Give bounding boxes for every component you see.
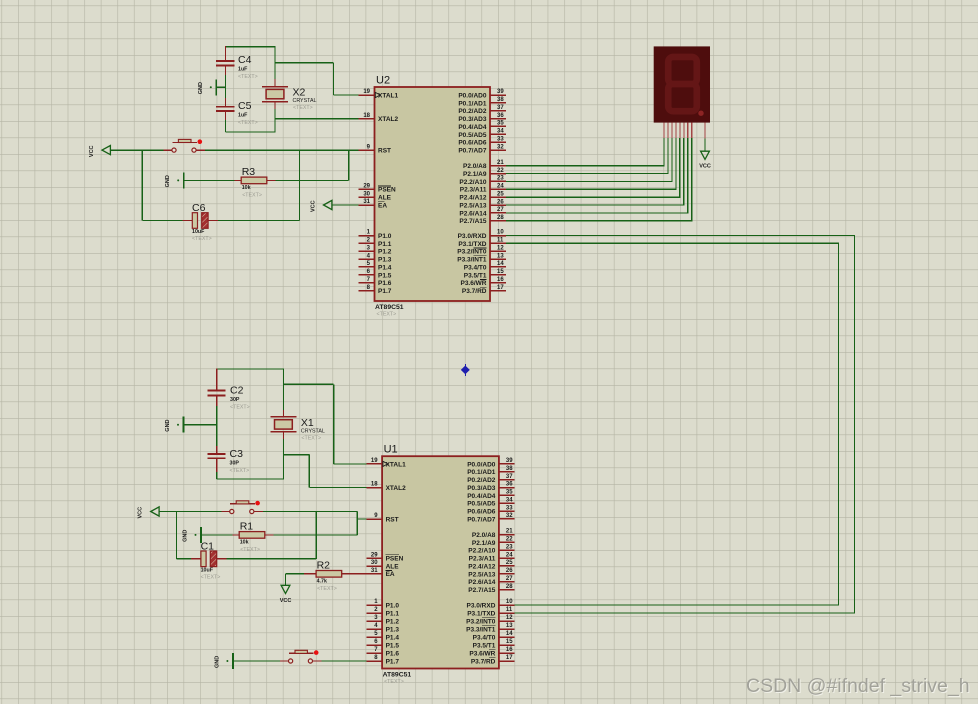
svg-text:GND: GND	[165, 175, 171, 187]
svg-text:P0.1/AD1: P0.1/AD1	[458, 100, 487, 107]
wire P2.1 to display segment b	[506, 138, 668, 173]
wire P2.4 to display segment e	[506, 138, 680, 197]
red state dot (P1.7 button)	[314, 650, 319, 655]
svg-text:PSEN: PSEN	[378, 187, 396, 194]
svg-text:19: 19	[371, 458, 378, 464]
capacitor C1 right lead	[217, 558, 227, 560]
svg-text:P1.7: P1.7	[378, 288, 392, 295]
ground (R1)	[183, 527, 202, 543]
button S1 left lead	[221, 511, 229, 513]
wire C4 top link	[226, 46, 276, 48]
U2 pin 11 (P3.1/TXD)	[458, 238, 505, 248]
U2 pin 34 (P0.5/AD5)	[458, 129, 505, 139]
svg-text:C3: C3	[230, 448, 244, 460]
svg-text:38: 38	[506, 466, 513, 472]
U1 pin 34 (P0.5/AD5)	[467, 497, 514, 507]
wire branch R3 vert	[348, 150, 350, 180]
svg-text:P3.1/TXD: P3.1/TXD	[467, 610, 495, 617]
svg-text:25: 25	[497, 191, 504, 197]
svg-text:4.7k: 4.7k	[317, 579, 327, 585]
wire R3 to RST net	[276, 179, 349, 181]
wire C2 to gnd node	[216, 406, 218, 425]
capacitor C4	[216, 54, 258, 80]
svg-text:<TEXT>: <TEXT>	[240, 547, 260, 553]
display pin e	[679, 123, 681, 139]
svg-text:PSEN: PSEN	[386, 556, 404, 563]
svg-text:VCC: VCC	[699, 164, 711, 170]
svg-text:P0.3/AD3: P0.3/AD3	[458, 116, 487, 123]
U1 pin 36 (P0.3/AD3)	[467, 482, 514, 492]
svg-text:P0.0/AD0: P0.0/AD0	[467, 461, 496, 468]
U2 pin 4 (P1.3)	[359, 253, 392, 263]
svg-text:P2.6/A14: P2.6/A14	[459, 210, 486, 217]
svg-text:1uF: 1uF	[238, 67, 248, 73]
U2 pin 35 (P0.4/AD4)	[458, 121, 505, 131]
svg-text:P2.1/A9: P2.1/A9	[463, 171, 487, 178]
U1 pin 33 (P0.6/AD6)	[467, 505, 514, 515]
svg-text:31: 31	[363, 199, 370, 205]
svg-text:10: 10	[506, 599, 513, 605]
svg-text:P2.2/A10: P2.2/A10	[468, 548, 495, 555]
U1 pin 19 (XTAL1)	[366, 458, 406, 468]
push button (U2 reset)	[172, 139, 197, 152]
svg-text:P2.0/A8: P2.0/A8	[472, 532, 496, 539]
svg-text:P0.5/AD5: P0.5/AD5	[467, 501, 496, 508]
button S2 right lead	[196, 149, 205, 151]
power VCC (U1 EA)	[280, 585, 292, 604]
svg-text:30P: 30P	[230, 460, 240, 466]
svg-text:P3.0/RXD: P3.0/RXD	[466, 602, 495, 609]
U1 pin 39 (P0.0/AD0)	[467, 458, 514, 468]
wire U1 XTAL1 link vert	[333, 384, 335, 464]
svg-text:37: 37	[506, 474, 513, 480]
capacitor C2 top lead	[216, 368, 218, 390]
svg-text:<TEXT>: <TEXT>	[238, 120, 258, 126]
crystal X2 top lead	[274, 79, 276, 87]
crystal X1	[270, 417, 324, 442]
wire U1 XTAL2 link vert	[308, 455, 310, 488]
resistor R2	[316, 560, 342, 592]
U2 pin 1 (P1.0)	[359, 230, 392, 240]
wire U1 XTAL1 link horiz	[283, 383, 333, 385]
svg-text:P0.4/AD4: P0.4/AD4	[458, 124, 487, 131]
wire R1 to jog	[274, 534, 358, 536]
svg-text:<TEXT>: <TEXT>	[317, 586, 337, 592]
wire jog to U1 RST	[357, 518, 366, 520]
wire button2 to jog	[263, 511, 357, 513]
power VCC (U1 reset)	[138, 507, 159, 519]
capacitor C5	[216, 100, 258, 126]
svg-text:P3.2/INT0: P3.2/INT0	[466, 618, 496, 625]
svg-text:12: 12	[497, 245, 504, 251]
svg-text:X1: X1	[301, 417, 314, 429]
capacitor C6	[192, 202, 212, 242]
capacitor C3 top lead	[216, 446, 218, 454]
svg-text:AT89C51: AT89C51	[383, 671, 412, 678]
svg-text:13: 13	[506, 623, 513, 629]
resistor R2 right lead	[342, 573, 367, 575]
wire gnd tee 2	[184, 424, 217, 426]
svg-text:P2.5/A13: P2.5/A13	[459, 202, 486, 209]
svg-text:P1.6: P1.6	[378, 280, 392, 287]
svg-text:36: 36	[506, 482, 513, 488]
svg-text:18: 18	[363, 113, 370, 119]
U1 pin 38 (P0.1/AD1)	[467, 466, 514, 476]
svg-text:P2.5/A13: P2.5/A13	[468, 571, 495, 578]
svg-text:P1.2: P1.2	[378, 249, 392, 256]
resistor R1 left lead	[232, 534, 239, 536]
svg-text:34: 34	[497, 129, 504, 135]
svg-text:RST: RST	[378, 148, 391, 155]
wire common anode to VCC	[704, 139, 706, 151]
wire gnd node to C3	[216, 425, 218, 446]
wire branch mid vert 2	[315, 512, 317, 559]
capacitor C4 bottom lead	[225, 65, 227, 75]
wire C5 bottom link	[226, 131, 276, 133]
svg-text:26: 26	[497, 199, 504, 205]
wire to U2 XTAL1	[334, 94, 360, 96]
svg-text:R3: R3	[242, 166, 256, 178]
resistor R2 left lead	[304, 573, 316, 575]
svg-text:P2.2/A10: P2.2/A10	[459, 179, 486, 186]
U2 pin 36 (P0.3/AD3)	[458, 113, 505, 123]
wire gnd tee	[216, 86, 225, 88]
wire C2 top link	[217, 368, 284, 370]
display pin c	[671, 123, 673, 139]
display pin b	[667, 123, 669, 139]
svg-text:P1.2: P1.2	[386, 618, 400, 625]
ground (top osc)	[198, 79, 217, 95]
U1 pin 7 (P1.6)	[366, 647, 399, 657]
svg-text:P0.2/AD2: P0.2/AD2	[458, 108, 487, 115]
capacitor C1	[201, 540, 221, 580]
svg-text:XTAL2: XTAL2	[378, 116, 398, 123]
svg-text:P0.7/AD7: P0.7/AD7	[458, 147, 487, 154]
wire P2.2 to display segment c	[506, 138, 672, 181]
U1 pin 9 (RST)	[366, 513, 398, 523]
svg-text:<TEXT>: <TEXT>	[242, 192, 262, 198]
svg-text:XTAL1: XTAL1	[386, 461, 406, 468]
U1 pin 32 (P0.7/AD7)	[467, 513, 514, 523]
svg-text:21: 21	[506, 529, 513, 535]
U2 pin 28 (P2.7/A15)	[459, 215, 505, 225]
svg-text:12: 12	[506, 615, 513, 621]
svg-text:33: 33	[506, 505, 513, 511]
svg-text:10k: 10k	[242, 185, 251, 191]
svg-text:27: 27	[506, 576, 513, 582]
wire VCC col vert	[285, 574, 287, 585]
crystal X2 bottom lead	[274, 102, 276, 109]
U1 pin 27 (P2.6/A14)	[468, 576, 514, 586]
svg-text:24: 24	[497, 184, 504, 190]
svg-text:P1.5: P1.5	[378, 272, 392, 279]
mcu U1 body	[382, 444, 499, 669]
U2 pin 38 (P0.1/AD1)	[458, 97, 505, 107]
svg-text:EA: EA	[378, 202, 387, 209]
svg-text:35: 35	[497, 121, 504, 127]
wire P2.7 to display segment h	[506, 138, 692, 221]
svg-text:26: 26	[506, 568, 513, 574]
U1 part type label	[383, 671, 412, 685]
svg-text:32: 32	[506, 513, 513, 519]
U2 pin 7 (P1.6)	[359, 277, 392, 287]
wire XTAL1 link horiz	[275, 62, 334, 64]
wire to U1 XTAL2	[309, 487, 366, 489]
svg-text:VCC: VCC	[280, 598, 292, 604]
svg-text:P2.1/A9: P2.1/A9	[472, 540, 496, 547]
svg-text:C6: C6	[192, 202, 206, 214]
svg-text:GND: GND	[183, 530, 189, 542]
U1 pin 8 (P1.7)	[366, 655, 399, 665]
svg-text:P3.5/T1: P3.5/T1	[464, 272, 487, 279]
U2 pin 25 (P2.4/A12)	[459, 191, 505, 201]
svg-text:<TEXT>: <TEXT>	[230, 405, 250, 411]
wire C3 to bottom link	[216, 472, 218, 479]
resistor R3 left lead	[234, 179, 241, 181]
wire P2.5 to display segment f	[506, 138, 684, 205]
svg-text:XTAL1: XTAL1	[378, 92, 398, 99]
svg-text:30P: 30P	[230, 397, 240, 403]
wire gnd to R3	[184, 179, 235, 181]
U1 pin 15 (P3.5/T1)	[473, 639, 515, 649]
svg-text:23: 23	[506, 544, 513, 550]
U2 pin 33 (P0.6/AD6)	[458, 136, 505, 146]
svg-text:15: 15	[497, 269, 504, 275]
U1 pin 14 (P3.4/T0)	[473, 631, 515, 641]
svg-text:ALE: ALE	[378, 195, 392, 202]
U2 part type label	[375, 304, 404, 318]
svg-text:17: 17	[506, 655, 513, 661]
svg-text:22: 22	[497, 168, 504, 174]
power VCC (U2 EA)	[311, 200, 332, 212]
capacitor C3 bottom lead	[216, 458, 218, 472]
wire xtal1 col upper	[282, 368, 284, 410]
svg-text:P0.1/AD1: P0.1/AD1	[467, 469, 496, 476]
svg-text:17: 17	[497, 285, 504, 291]
U2 pin 30 (ALE)	[359, 191, 392, 201]
wire VCC to button	[110, 149, 163, 151]
wire branch left vert	[141, 150, 143, 220]
wire XTAL1 link vert	[333, 63, 335, 95]
svg-text:27: 27	[497, 207, 504, 213]
U2 pin 22 (P2.1/A9)	[463, 168, 506, 178]
svg-text:GND: GND	[214, 656, 220, 668]
svg-text:10uF: 10uF	[192, 229, 205, 235]
svg-text:11: 11	[497, 238, 504, 244]
svg-text:18: 18	[371, 482, 378, 488]
button S1 right lead	[254, 511, 263, 513]
svg-text:<TEXT>: <TEXT>	[230, 468, 250, 474]
svg-text:P0.6/AD6: P0.6/AD6	[458, 140, 487, 147]
U1 pin 24 (P2.3/A11)	[469, 552, 515, 562]
svg-text:16: 16	[506, 647, 513, 653]
svg-text:CSDN @#ifndef _strive_h: CSDN @#ifndef _strive_h	[746, 675, 970, 697]
svg-text:21: 21	[497, 160, 504, 166]
U1 pin 28 (P2.7/A15)	[468, 584, 514, 594]
svg-text:P2.0/A8: P2.0/A8	[463, 163, 487, 170]
U2 pin 31 (EA)	[359, 199, 388, 209]
U2 pin 8 (P1.7)	[359, 285, 392, 295]
wire C4 to gnd node	[225, 75, 227, 87]
wire gnd to button3	[233, 660, 280, 662]
svg-text:P1.0: P1.0	[378, 233, 392, 240]
svg-text:37: 37	[497, 105, 504, 111]
svg-text:25: 25	[506, 560, 513, 566]
power VCC (display)	[699, 151, 711, 170]
wire C3 bottom link	[217, 478, 284, 480]
U2 pin 13 (P3.3/INT1)	[457, 253, 506, 263]
U1 pin 16 (P3.6/WR)	[469, 647, 514, 657]
wire to U1 XTAL1	[334, 463, 367, 465]
svg-text:P0.6/AD6: P0.6/AD6	[467, 509, 496, 516]
wire C5 to bottom link	[225, 120, 227, 132]
U1 pin 13 (P3.3/INT1)	[466, 623, 515, 633]
wire xtal col upper	[274, 46, 276, 79]
svg-text:P0.5/AD5: P0.5/AD5	[458, 132, 487, 139]
svg-text:P3.5/T1: P3.5/T1	[473, 642, 496, 649]
svg-text:EA: EA	[386, 571, 395, 578]
svg-text:C1: C1	[201, 540, 215, 552]
svg-text:14: 14	[497, 261, 504, 267]
U2 pin 19 (XTAL1)	[359, 89, 399, 99]
svg-text:29: 29	[363, 184, 370, 190]
svg-text:P3.1/TXD: P3.1/TXD	[458, 241, 486, 248]
capacitor C5 top lead	[225, 98, 227, 107]
power VCC (U2 reset)	[89, 145, 110, 157]
svg-text:P1.5: P1.5	[386, 642, 400, 649]
wire branch left vert 2	[176, 512, 178, 559]
svg-text:P2.3/A11: P2.3/A11	[469, 556, 496, 563]
svg-text:<TEXT>: <TEXT>	[301, 435, 321, 441]
svg-text:<TEXT>: <TEXT>	[377, 312, 397, 318]
U2 pin 37 (P0.2/AD2)	[458, 105, 505, 115]
wire gnd node to C5	[225, 87, 227, 98]
svg-text:X2: X2	[293, 87, 306, 99]
svg-text:14: 14	[506, 631, 513, 637]
svg-text:C4: C4	[238, 54, 252, 66]
svg-text:P1.6: P1.6	[386, 650, 400, 657]
svg-text:13: 13	[497, 253, 504, 259]
svg-text:<TEXT>: <TEXT>	[201, 574, 221, 580]
U2 pin 2 (P1.1)	[359, 238, 392, 248]
wire C6 row right	[218, 220, 299, 222]
display common anode pin	[704, 123, 706, 139]
resistor R1	[239, 521, 265, 553]
svg-text:P1.3: P1.3	[386, 626, 400, 633]
display pin a	[663, 123, 665, 139]
svg-text:39: 39	[506, 458, 513, 464]
svg-text:P1.4: P1.4	[386, 634, 400, 641]
svg-text:34: 34	[506, 497, 513, 503]
wire C6 row left	[142, 220, 182, 222]
wire gnd to R1	[201, 534, 232, 536]
U1 pin 29 (PSEN)	[366, 552, 403, 562]
svg-text:<TEXT>: <TEXT>	[238, 74, 258, 80]
node marker (blue origin)	[461, 364, 470, 376]
wire C1 row right	[227, 558, 316, 560]
svg-text:38: 38	[497, 97, 504, 103]
svg-text:CRYSTAL: CRYSTAL	[301, 428, 325, 434]
U1 pin 3 (P1.2)	[366, 615, 399, 625]
svg-text:33: 33	[497, 136, 504, 142]
U2 pin 9 (RST)	[359, 144, 391, 154]
U1 pin 6 (P1.5)	[366, 639, 399, 649]
wire VCC to button 2	[159, 511, 221, 513]
svg-text:P1.1: P1.1	[386, 610, 400, 617]
U2 pin 10 (P3.0/RXD)	[458, 230, 506, 240]
svg-text:10k: 10k	[240, 540, 249, 546]
capacitor C1 left lead	[191, 558, 201, 560]
U2 pin 16 (P3.6/WR)	[460, 277, 505, 287]
svg-text:22: 22	[506, 537, 513, 543]
button S3 right lead	[313, 660, 322, 662]
crystal X1 bottom lead	[282, 432, 284, 439]
U1 pin 17 (P3.7/RD)	[471, 655, 515, 665]
svg-text:ALE: ALE	[386, 563, 400, 570]
wire P2.0 to display segment a	[506, 138, 664, 166]
U1 pin 18 (XTAL2)	[366, 482, 406, 492]
wire branch mid vert	[299, 150, 301, 220]
svg-text:P0.0/AD0: P0.0/AD0	[458, 92, 487, 99]
svg-text:11: 11	[506, 607, 513, 613]
svg-text:R2: R2	[317, 560, 331, 572]
svg-text:P3.6/WR: P3.6/WR	[469, 650, 495, 657]
U2 pin 6 (P1.5)	[359, 269, 392, 279]
U2 pin 39 (P0.0/AD0)	[458, 89, 505, 99]
resistor R3 right lead	[267, 179, 276, 181]
svg-text:P3.6/WR: P3.6/WR	[460, 280, 486, 287]
svg-text:P1.7: P1.7	[386, 658, 400, 665]
crystal X1 top lead	[282, 410, 284, 417]
svg-text:31: 31	[371, 568, 378, 574]
svg-text:P1.1: P1.1	[378, 241, 392, 248]
svg-text:32: 32	[497, 144, 504, 150]
U1 pin 5 (P1.4)	[366, 631, 399, 641]
wire U2 P3.0 RXD to U1 P3.1 TXD	[506, 236, 855, 614]
display pin h	[691, 123, 693, 139]
push button (U1 P1.7)	[289, 650, 314, 663]
wire button to U2 RST	[205, 149, 359, 151]
display pin g	[687, 123, 689, 139]
svg-text:P1.3: P1.3	[378, 257, 392, 264]
ground (R3)	[165, 172, 184, 188]
svg-text:<TEXT>: <TEXT>	[192, 236, 212, 242]
wire C1 row left	[177, 558, 192, 560]
svg-text:30: 30	[363, 191, 370, 197]
svg-text:24: 24	[506, 552, 513, 558]
svg-text:U2: U2	[376, 75, 390, 87]
7-segment display body	[654, 46, 710, 122]
wire jog vert	[356, 512, 358, 535]
U2 pin 3 (P1.2)	[359, 245, 392, 255]
svg-text:GND: GND	[165, 419, 171, 431]
svg-text:P1.4: P1.4	[378, 264, 392, 271]
U1 pin 1 (P1.0)	[366, 599, 399, 609]
wire U1 XTAL2 link horiz	[283, 454, 309, 456]
svg-text:36: 36	[497, 113, 504, 119]
svg-text:P2.7/A15: P2.7/A15	[468, 587, 495, 594]
capacitor C6 right lead	[209, 220, 219, 222]
red state dot (U2 button)	[198, 139, 203, 144]
svg-text:28: 28	[506, 584, 513, 590]
svg-text:<TEXT>: <TEXT>	[384, 679, 404, 685]
svg-text:P0.3/AD3: P0.3/AD3	[467, 485, 496, 492]
svg-text:P0.4/AD4: P0.4/AD4	[467, 493, 496, 500]
svg-text:VCC: VCC	[311, 200, 317, 212]
svg-text:<TEXT>: <TEXT>	[293, 105, 313, 111]
svg-text:CRYSTAL: CRYSTAL	[293, 98, 317, 104]
U2 pin 32 (P0.7/AD7)	[458, 144, 505, 154]
